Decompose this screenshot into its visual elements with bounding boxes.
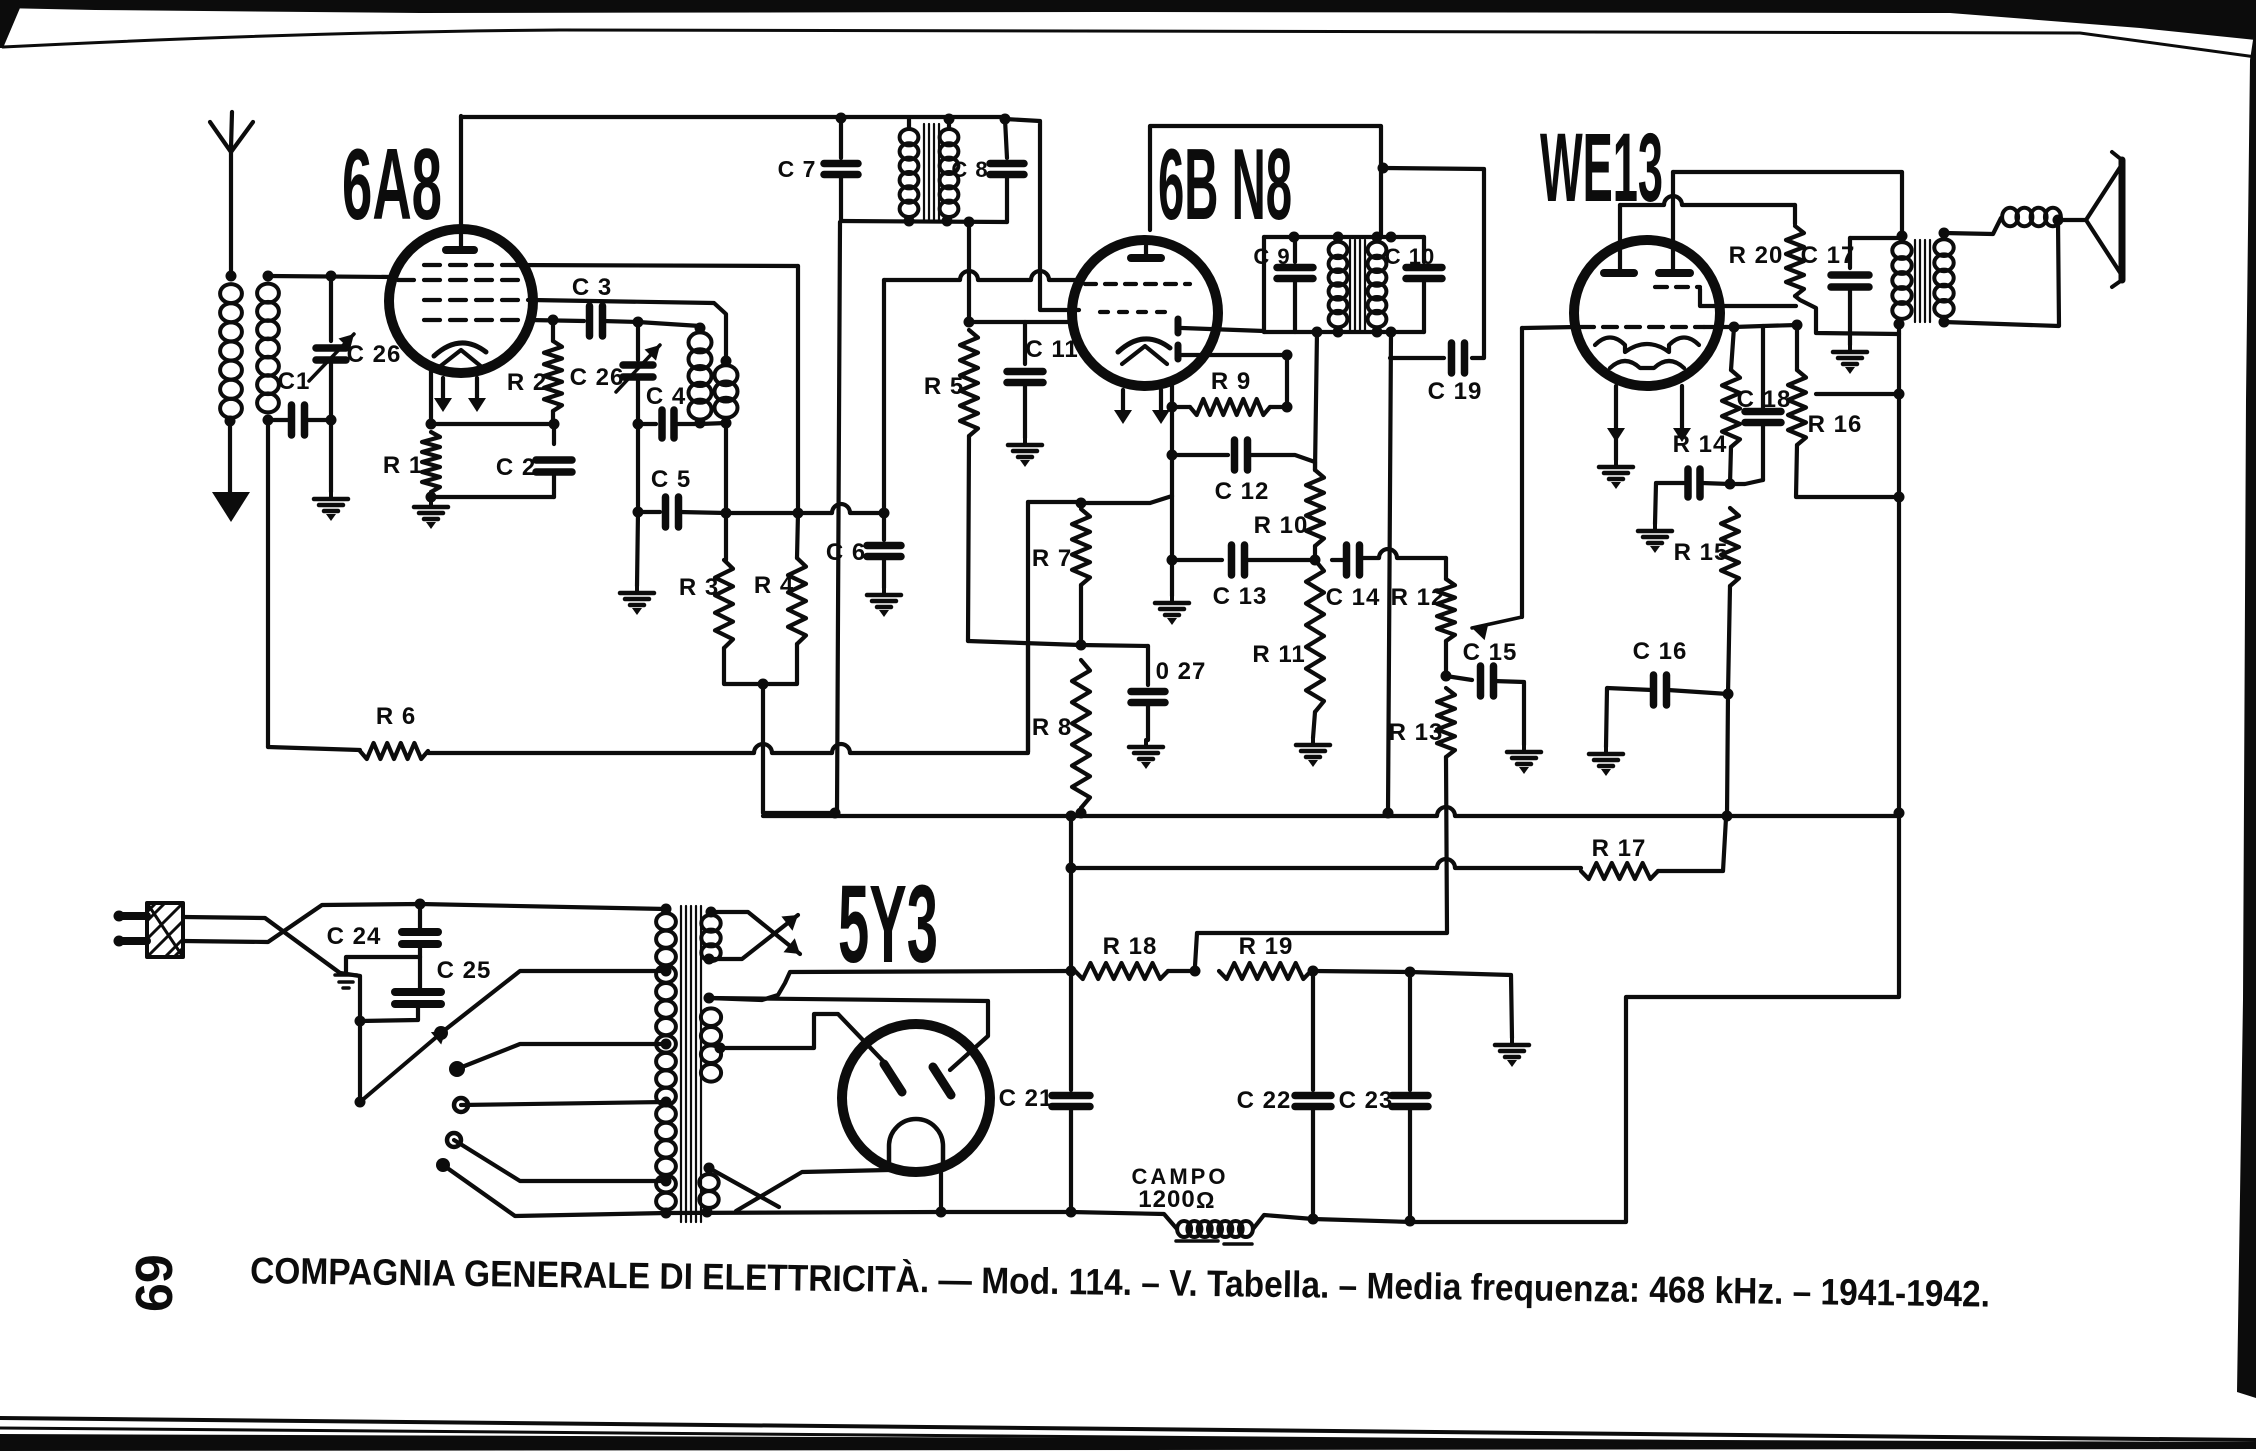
wire R13 bottom to R18 R19 junction — [1195, 757, 1447, 966]
wire C5 left down to ground — [637, 512, 638, 586]
svg-text:C 26: C 26 — [570, 364, 625, 391]
resistor R4 — [754, 513, 806, 644]
ground below WE13 — [1599, 460, 1633, 489]
wire 5Y3 left plate feed — [720, 1014, 884, 1062]
svg-text:R 16: R 16 — [1808, 411, 1863, 438]
svg-text:R 11: R 11 — [1252, 641, 1305, 668]
filter rail — [666, 1212, 1412, 1229]
wire plate row to transformer — [1816, 392, 1899, 396]
resistor R8 — [1032, 660, 1090, 819]
tube WE13 cathode arcs — [1595, 338, 1699, 369]
tube 6A8 envelope — [389, 229, 533, 373]
capacitor C11 — [1007, 322, 1079, 438]
wire T2 sec bottom down detector — [1315, 332, 1394, 819]
tube WE13 envelope — [1574, 240, 1720, 386]
svg-text:1200: 1200 — [1138, 1186, 1195, 1213]
coil L1 antenna primary — [220, 284, 242, 303]
resistor R14 — [1673, 327, 1740, 490]
power transformer primary — [656, 904, 676, 1219]
svg-text:C 24: C 24 — [327, 923, 382, 950]
border top black bar — [0, 0, 2256, 40]
power transformer filament winding — [701, 993, 726, 1082]
ground at C24 C25 junction — [335, 957, 420, 988]
svg-text:R 10: R 10 — [1254, 512, 1309, 539]
tube WE13 screen bars — [1604, 269, 1690, 277]
capacitor C27 — [1076, 640, 1207, 741]
IF transformer T2 secondary coil — [1368, 232, 1387, 338]
ground below C26 — [314, 492, 348, 521]
coil L2 antenna secondary — [257, 271, 279, 426]
tube 6BN8 grid dashes — [1085, 284, 1190, 312]
ground below C17 — [1833, 345, 1867, 374]
tube 6BN8 cathode arc — [1118, 339, 1170, 364]
speaker horn — [2058, 152, 2122, 287]
tube 5Y3 plates — [884, 1064, 951, 1095]
svg-text:6B N8: 6B N8 — [1158, 129, 1292, 241]
ground below C20 — [1638, 524, 1672, 553]
capacitor C21 — [999, 971, 1090, 1218]
svg-text:R 6: R 6 — [376, 703, 416, 730]
border right black bar — [2237, 20, 2256, 1398]
svg-text:R 19: R 19 — [1239, 933, 1294, 960]
tube WE13 grid dashes — [1580, 287, 1704, 327]
resistor R3 — [679, 513, 733, 648]
tube 6A8 signal grid dashes row2 — [398, 278, 518, 282]
coil L3 oscillator grid winding — [689, 323, 712, 429]
resistor R17 — [1581, 818, 1726, 879]
wire 6A8 anode top bus — [461, 113, 1011, 125]
variable capacitor C26 (osc trimmer) — [570, 322, 660, 424]
svg-text:C 23: C 23 — [1339, 1087, 1394, 1114]
ground earth arrow below L1 — [212, 492, 250, 522]
wire L2 bottom down to R6 row — [266, 420, 270, 747]
resistor R1 — [383, 432, 440, 503]
output transformer T3 primary — [1892, 231, 1911, 330]
capacitor C6 — [826, 513, 901, 588]
wire voice coil loop — [1944, 215, 2064, 327]
svg-text:C 9: C 9 — [1253, 244, 1290, 269]
tube 6A8 grid dashes row3 — [424, 298, 532, 302]
svg-text:R 15: R 15 — [1674, 539, 1729, 566]
output transformer T3 secondary — [1934, 228, 1953, 328]
svg-text:0 27: 0 27 — [1156, 658, 1207, 685]
wire osc node down to C5 — [633, 423, 727, 518]
ground below R19 node — [1495, 1038, 1529, 1067]
wire B- staircase to filter rail — [1412, 816, 1899, 1222]
svg-text:C 19: C 19 — [1428, 378, 1483, 405]
antenna — [210, 112, 253, 276]
ground below C11 — [1008, 438, 1042, 467]
resistor R9 — [1172, 368, 1293, 415]
IF transformer T1 primary coil — [900, 119, 919, 227]
svg-text:C 16: C 16 — [1633, 638, 1688, 665]
svg-text:C 3: C 3 — [572, 274, 612, 301]
border top-left corner wedge — [0, 6, 20, 48]
wire WE13 grid node — [1704, 320, 1803, 333]
capacitor C7 — [778, 118, 858, 221]
wire riser to 6BN8 grid — [884, 271, 1079, 513]
tube 6BN8 anode bar — [1131, 240, 1161, 258]
resistor R19 — [1219, 933, 1319, 979]
capacitor C14 — [1326, 545, 1446, 611]
wire 6BN8 pin to T2 bottom — [1182, 328, 1264, 331]
wire HV winding to 5Y3 plates crossing — [709, 912, 800, 959]
svg-text:R 18: R 18 — [1103, 933, 1158, 960]
ground below C16 left lead — [1589, 747, 1623, 776]
wire L1 bottom to earth arrow — [225, 416, 236, 493]
ground below C27 — [1129, 740, 1163, 769]
wire antenna to coil L1 — [226, 271, 237, 282]
capacitor C9 — [1253, 237, 1313, 332]
svg-text:C 18: C 18 — [1737, 386, 1792, 413]
svg-text:R 2: R 2 — [507, 369, 547, 396]
bus A backbias line — [763, 807, 1899, 822]
wire R3 R4 bottoms to bus A — [724, 644, 835, 813]
ground below C15 — [1507, 745, 1541, 774]
wire R19 output node — [1313, 967, 1512, 1039]
tube 6A8 cathode arc — [434, 343, 486, 368]
capacitor C16 — [1606, 638, 1728, 747]
border bottom second edge line — [0, 1428, 2256, 1446]
wire 5Y3 right plate feed — [709, 998, 988, 1070]
wire L2 top to C26 junction and 6A8 grid — [268, 271, 392, 282]
wire 6A8 row1 to oscillator anode drop — [502, 265, 798, 513]
svg-text:R 3: R 3 — [679, 574, 719, 601]
output transformer T3 core — [1915, 240, 1930, 322]
svg-text:C 4: C 4 — [646, 383, 686, 410]
capacitor C2 — [431, 424, 572, 497]
svg-text:R 5: R 5 — [924, 373, 964, 400]
power transformer HV top winding — [701, 907, 720, 965]
capacitor C15 — [1446, 639, 1524, 745]
capacitor C24 — [327, 904, 438, 957]
tube 6BN8 heater arrows — [1114, 390, 1170, 424]
resistor R10 — [1254, 470, 1324, 560]
capacitor C17 — [1801, 238, 1902, 345]
svg-text:R 12: R 12 — [1391, 584, 1446, 611]
resistor R7 and box — [1028, 498, 1090, 753]
speaker voice coil — [2002, 208, 2018, 226]
ground below C5 — [620, 586, 654, 615]
coil L4 oscillator anode winding — [715, 356, 738, 429]
capacitor C20 — [1655, 469, 1730, 524]
mains plug — [114, 903, 184, 957]
resistor R13 — [1389, 688, 1455, 757]
svg-text:R 9: R 9 — [1211, 368, 1251, 395]
power transformer core — [681, 906, 701, 1222]
wire bus A to bus B to R18 column — [1066, 811, 1077, 972]
power transformer rectifier heater winding — [699, 1163, 718, 1218]
IF transformer T1 secondary coil — [940, 119, 959, 227]
ground below C6 — [867, 588, 901, 617]
ground below R1 C2 — [414, 500, 448, 529]
bus B to R17 — [1066, 859, 1582, 874]
svg-text:R 8: R 8 — [1032, 714, 1072, 741]
ground below R11 — [1296, 738, 1330, 767]
resistor R2 — [507, 315, 562, 425]
ground below 6BN8 cathode — [1155, 596, 1189, 625]
svg-text:R 14: R 14 — [1673, 431, 1728, 458]
capacitor C10 — [1385, 237, 1442, 332]
potentiometer wiper arrow — [1472, 328, 1522, 640]
svg-text:C 25: C 25 — [437, 957, 492, 984]
svg-text:C 21: C 21 — [999, 1085, 1054, 1112]
wire 6A8 row3 to osc coil — [532, 300, 726, 361]
tube WE13 plate path — [1700, 289, 1796, 306]
capacitor C3 — [572, 274, 638, 336]
resistor R11 — [1252, 560, 1324, 738]
capacitor C12 — [1172, 440, 1315, 505]
caption text — [250, 1250, 1990, 1315]
svg-text:C 11: C 11 — [1025, 336, 1078, 363]
tube 5Y3 filament — [889, 1119, 943, 1168]
variable capacitor C26 (antenna trimmer) — [309, 276, 401, 492]
svg-text:R 20: R 20 — [1729, 242, 1784, 269]
resistor R12 volume control — [1391, 558, 1455, 682]
svg-text:5Y3: 5Y3 — [838, 863, 938, 986]
capacitor C25 — [360, 957, 491, 1021]
svg-text:C 22: C 22 — [1237, 1087, 1292, 1114]
tube 6A8 grid dashes row4 — [424, 318, 530, 322]
capacitor C1 — [268, 368, 331, 435]
wire C8 top rail to 6BN8 row2 — [1005, 119, 1079, 310]
wire R5 row to C11 and 6BN8 cathode region — [969, 320, 1072, 324]
wire WE13 left bar riser — [1620, 196, 1795, 270]
resistor R15 — [1674, 508, 1739, 816]
wire mains to transformer crossed — [183, 899, 666, 1103]
svg-text:C1: C1 — [278, 368, 311, 395]
border page top edge line — [3, 30, 2256, 57]
svg-text:C 7: C 7 — [778, 156, 817, 182]
svg-text:Ω: Ω — [1196, 1187, 1214, 1213]
wire 6BN8 cathode down — [1167, 385, 1178, 596]
svg-text:C 26: C 26 — [347, 341, 402, 368]
resistor R6 — [268, 703, 1028, 759]
wire 5Y3 cathode to R18 — [709, 966, 1077, 1001]
wire 6BN8 pin2 to R9 right — [1182, 350, 1293, 408]
border bottom black wedge — [0, 1434, 2256, 1451]
resistor R18 — [1075, 933, 1201, 979]
resistor R5 — [924, 222, 1080, 645]
wire WE13 right bar to top rail — [1673, 172, 1902, 270]
svg-text:C 14: C 14 — [1326, 584, 1381, 611]
svg-text:C 6: C 6 — [826, 539, 866, 566]
wire T2 top — [1264, 232, 1424, 243]
IF transformer T2 primary coil — [1329, 232, 1348, 338]
svg-text:C 2: C 2 — [496, 454, 536, 481]
wire wiper to WE13 grid — [1522, 327, 1576, 328]
wire osc grid top to coil A — [638, 322, 700, 326]
wire R7 top to cathode column — [1081, 496, 1172, 503]
wire T1 bottom down to bus A — [837, 222, 840, 813]
capacitor C13 — [1172, 545, 1321, 610]
svg-text:R 7: R 7 — [1032, 545, 1072, 572]
wire 6A8 row4 to C3 — [530, 320, 584, 321]
capacitor C5 — [638, 466, 726, 527]
wire T3 primary bottom to B- column — [1894, 324, 1905, 819]
svg-text:R 1: R 1 — [383, 452, 423, 479]
field coil CAMPO 1200 ohm — [1132, 1164, 1253, 1244]
capacitor C22 — [1237, 971, 1331, 1225]
wire W1 C5 to C6 node — [721, 504, 890, 519]
svg-text:C 10: C 10 — [1385, 244, 1435, 269]
tube 6A8 grid dashes row1 — [424, 263, 502, 267]
border bottom edge line — [0, 1418, 2256, 1440]
IF transformer T1 core — [924, 124, 939, 222]
wire switch contacts to primary taps — [441, 971, 666, 1216]
wire T1 bottom — [841, 217, 1007, 228]
svg-text:C 17: C 17 — [1801, 242, 1856, 269]
IF transformer T2 core — [1350, 240, 1365, 332]
capacitor C4 — [633, 383, 701, 438]
tube 5Y3 envelope — [842, 1024, 990, 1172]
tube 6BN8 label box — [1150, 126, 1389, 235]
capacitor C8 — [951, 119, 1024, 222]
svg-text:69: 69 — [126, 1254, 184, 1312]
tube 6BN8 envelope — [1072, 240, 1218, 386]
svg-text:R 4: R 4 — [754, 572, 794, 599]
svg-text:C 8: C 8 — [951, 157, 988, 182]
svg-text:C 13: C 13 — [1213, 583, 1268, 610]
capacitor C19 — [1383, 168, 1484, 405]
tube 6A8 anode bar and lead — [446, 116, 474, 250]
wire T3 to voice coil — [1944, 218, 2001, 234]
tube 6A8 heater arrows — [434, 378, 486, 412]
capacitor C18 — [1730, 326, 1791, 484]
wire 5Y3 filament to winding — [709, 1168, 947, 1218]
voltage selector switch — [355, 1026, 469, 1172]
svg-text:C 12: C 12 — [1215, 478, 1270, 505]
wire T2 bottom — [1264, 327, 1424, 338]
svg-text:R 13: R 13 — [1389, 719, 1444, 746]
tube WE13 heater arrows — [1607, 386, 1691, 460]
resistor R16 — [1788, 325, 1899, 497]
capacitor C23 — [1339, 972, 1428, 1227]
wire 6A8 cathode to R1 node — [426, 368, 560, 430]
tube 6BN8 grid pins — [1175, 319, 1182, 359]
svg-text:6A8: 6A8 — [342, 129, 442, 241]
resistor R20 — [1729, 226, 1899, 334]
svg-text:R 17: R 17 — [1592, 835, 1647, 862]
node C3 right / oscillator grid — [633, 317, 644, 328]
svg-text:C 15: C 15 — [1463, 639, 1518, 666]
svg-text:C 5: C 5 — [651, 466, 691, 493]
